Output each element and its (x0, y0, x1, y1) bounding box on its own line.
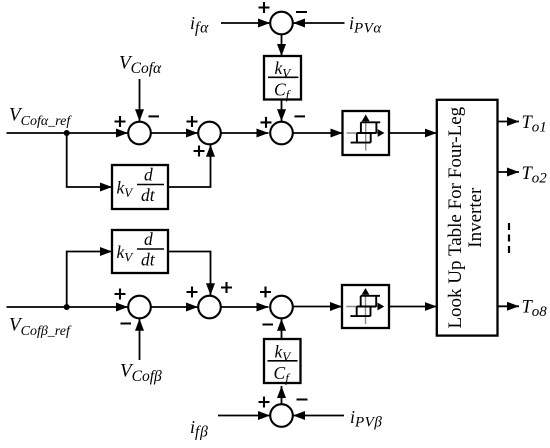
summing junction C2a (198, 122, 221, 145)
box kV d/dt (alpha) (112, 165, 168, 209)
wire: S0a output down into box kV/Cf (alpha) (281, 34, 283, 56)
summing junction C3b (270, 296, 293, 319)
plus sign at S0b left input (259, 397, 270, 408)
wire: H2 to look-up table box (389, 306, 437, 308)
plus sign at C2a bottom input (194, 146, 205, 157)
box kV/Cf (beta) (264, 339, 301, 383)
svg-text:dt: dt (141, 250, 156, 270)
wire: V_Cof_alpha_ref main line into summing junction C1a (7, 132, 129, 134)
wire: C2b to C3b (221, 306, 269, 308)
summing junction C2b (198, 296, 221, 319)
wire: output T_o8 (498, 305, 520, 307)
minus sign at C3a top input (295, 115, 306, 117)
svg-text:VCofα: VCofα (119, 53, 162, 78)
wire: C3b to hysteresis block H2 (293, 306, 342, 308)
summing junction C3a (270, 122, 293, 145)
wire: H1 to look-up table box (389, 132, 437, 134)
svg-text:To1: To1 (522, 113, 547, 136)
box kV/Cf (alpha) (264, 56, 301, 100)
wire: C1b to C2b (151, 306, 198, 308)
wire: i_f_beta into summing junction S0b (218, 415, 270, 417)
svg-text:dt: dt (141, 185, 156, 205)
wire: kV/Cf (alpha) output down into summing junction C3a (281, 100, 283, 122)
wire: output T_o2 (498, 171, 520, 173)
svg-text:Look Up Table For Four-Leg: Look Up Table For Four-Leg (445, 106, 466, 328)
wire: C3a to hysteresis block H1 (293, 132, 343, 134)
minus sign at S0a right input (296, 11, 307, 13)
svg-text:d: d (144, 229, 153, 249)
svg-text:VCofβ: VCofβ (120, 361, 162, 386)
node: junction dot on beta ref line (64, 304, 70, 310)
minus sign at C3b bottom input (263, 324, 274, 326)
hysteresis relay block H1 (343, 111, 390, 155)
minus sign at S0b right input (297, 399, 308, 401)
svg-text:To8: To8 (522, 298, 548, 321)
wire: V_Cof_beta up into summing junction C1b (139, 319, 141, 360)
wire: S0b output up into box kV/Cf (beta) (281, 386, 283, 404)
wire: kV d/dt (beta) output right and down into C2b top (168, 252, 211, 296)
wire: i_PV_alpha into summing junction S0a (293, 22, 345, 24)
svg-text:VCofβ_ref: VCofβ_ref (9, 315, 72, 340)
summing junction C1b (128, 296, 151, 319)
plus sign at C3a left input (261, 117, 272, 128)
summing junction C1a (128, 122, 151, 145)
wire: kV/Cf (beta) output up into C3b bottom (281, 319, 283, 339)
plus sign at S0a left input (259, 2, 270, 13)
wire: output T_o1 (498, 121, 520, 123)
plus sign at C2b left input (187, 287, 198, 298)
svg-text:Inverter: Inverter (465, 187, 486, 248)
wire: V_Cof_beta_ref main line into summing junction C1b (7, 306, 129, 308)
plus sign at C2a left input (187, 116, 198, 127)
plus sign at C1a left input (115, 116, 126, 127)
wire: i_PV_beta into summing junction S0b (293, 415, 344, 417)
wire: C2a to C3a (221, 132, 269, 134)
wire: C1a to C2a (151, 132, 198, 134)
svg-text:d: d (144, 165, 153, 185)
hysteresis relay block H2 (342, 285, 389, 328)
dashed ellipsis line between T_o2 and T_o8 (508, 223, 510, 254)
svg-text:ifα: ifα (190, 13, 209, 37)
minus sign at C1a top input (149, 115, 160, 117)
summing junction S0a (270, 12, 293, 35)
plus sign at C1b left input (115, 289, 126, 300)
wire: V_Cof_alpha down into summing junction C1a (139, 79, 141, 121)
wire: i_f_alpha into summing junction S0a (221, 22, 270, 24)
svg-text:iPVα: iPVα (349, 13, 382, 37)
wire: junction dot down and right into box kV d/dt (alpha) (67, 133, 112, 187)
box kV d/dt (beta) (112, 230, 168, 273)
minus sign at C1b bottom input (121, 323, 132, 325)
svg-text:VCofα_ref: VCofα_ref (9, 105, 72, 130)
plus sign at C3b left input (260, 287, 271, 298)
wire: junction dot up and right into box kV d/dt (beta) (67, 252, 112, 308)
svg-text:ifβ: ifβ (190, 417, 209, 441)
svg-text:iPVβ: iPVβ (350, 407, 382, 431)
summing junction S0b (270, 404, 293, 427)
plus sign at C2b top input (221, 282, 232, 293)
svg-text:To2: To2 (522, 164, 548, 187)
box: Look Up Table For Four-Leg Inverter (437, 100, 498, 336)
node: junction dot on alpha ref line (64, 130, 70, 136)
wire: kV d/dt (alpha) output right and up into C2a bottom (168, 145, 211, 187)
